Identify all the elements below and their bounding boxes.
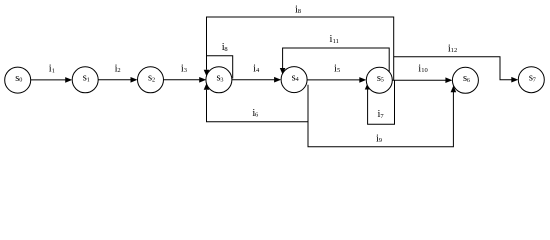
svg-text:7: 7: [380, 113, 384, 120]
svg-text:4: 4: [256, 67, 260, 74]
transition i8 self-loop on s3: [207, 56, 233, 79]
svg-text:1: 1: [52, 67, 55, 74]
transition i1 s0 to s1: [31, 79, 66, 81]
transition i10 s5 to s6: [392, 79, 445, 81]
transition i4 s3 to s4: [232, 79, 274, 81]
state s1: [72, 67, 98, 93]
state s5: [366, 67, 392, 93]
svg-text:1: 1: [87, 76, 90, 83]
svg-text:11: 11: [333, 38, 339, 45]
svg-text:7: 7: [533, 76, 536, 83]
transition i2 s1 to s2: [98, 79, 131, 81]
svg-text:10: 10: [421, 67, 428, 74]
transition i8 big loop s5 to s3 top rectangle: [207, 17, 394, 80]
svg-text:6: 6: [467, 77, 470, 84]
arrowhead i3: [199, 77, 206, 83]
svg-text:6: 6: [255, 112, 259, 119]
svg-text:2: 2: [152, 76, 155, 83]
svg-text:0: 0: [19, 77, 22, 84]
state s6: [452, 67, 478, 93]
transition i12 s5 to s7: [394, 57, 512, 80]
svg-text:5: 5: [337, 67, 340, 74]
state s0: [5, 67, 31, 93]
svg-text:8: 8: [298, 8, 301, 15]
arrowhead into s6 from below (i9): [451, 86, 457, 93]
transition i3 s2 to s3: [164, 79, 200, 81]
transition i6 s4 to s3 bottom: [207, 85, 309, 122]
svg-text:3: 3: [184, 67, 187, 74]
transition i11 s5 to s4 rectangle: [283, 48, 390, 72]
arrowhead into s4 from above (i11): [280, 68, 286, 75]
svg-text:2: 2: [117, 67, 120, 74]
arrowhead into s3 from above (i8): [204, 70, 210, 77]
transition i7 self-loop on s5 below: [368, 80, 395, 124]
svg-text:8: 8: [224, 46, 227, 53]
svg-text:5: 5: [381, 77, 384, 84]
arrowhead i5: [359, 77, 366, 83]
arrowhead into s3 from below (i6): [204, 83, 210, 90]
arrowhead into s7 (i12): [511, 77, 518, 83]
svg-text:3: 3: [220, 76, 223, 83]
state s2: [138, 67, 164, 93]
svg-text:4: 4: [296, 76, 299, 83]
state s3: [206, 67, 232, 93]
arrowhead into s5 from below (i7): [365, 83, 371, 90]
svg-text:12: 12: [451, 47, 458, 54]
arrowhead i10: [445, 77, 452, 83]
arrowhead i4: [274, 77, 281, 83]
state s4: [281, 67, 307, 93]
arrowhead i1: [65, 77, 72, 83]
svg-text:9: 9: [379, 137, 382, 144]
transition i5 s4 to s5: [307, 79, 359, 81]
transition i9 s4 to s6 bottom: [308, 92, 453, 147]
arrowhead i2: [131, 77, 138, 83]
state s7: [518, 67, 544, 93]
